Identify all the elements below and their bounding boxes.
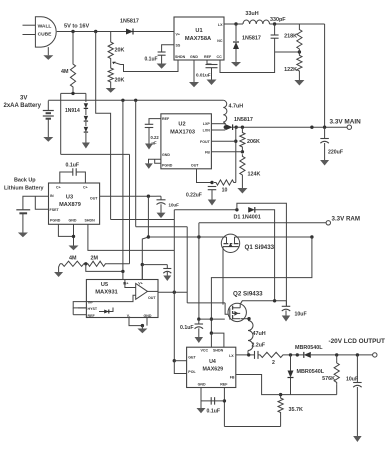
svg-text:LX: LX <box>218 23 223 27</box>
svg-text:SHDN: SHDN <box>213 349 224 353</box>
svg-text:OUT: OUT <box>148 296 156 300</box>
svg-text:GND: GND <box>69 219 77 223</box>
svg-text:10uF: 10uF <box>346 377 358 383</box>
svg-text:C+: C+ <box>83 186 88 190</box>
svg-text:3.3V RAM: 3.3V RAM <box>332 216 361 223</box>
svg-text:218K: 218K <box>284 34 297 40</box>
svg-text:uF: uF <box>152 141 158 146</box>
svg-text:MAX629: MAX629 <box>202 367 223 373</box>
svg-text:CC: CC <box>217 55 223 59</box>
svg-text:0.1uF: 0.1uF <box>180 325 194 331</box>
svg-text:MBR0540L: MBR0540L <box>297 369 325 375</box>
svg-text:POL: POL <box>188 370 196 374</box>
svg-text:Back Up: Back Up <box>14 178 36 184</box>
svg-text:10: 10 <box>222 188 228 194</box>
svg-text:3V: 3V <box>20 96 27 102</box>
svg-text:2xAA Battery: 2xAA Battery <box>4 103 42 109</box>
svg-text:576K: 576K <box>322 376 335 382</box>
svg-text:1N5817: 1N5817 <box>234 117 253 123</box>
svg-text:0.01uF: 0.01uF <box>196 73 211 78</box>
svg-text:MAX879: MAX879 <box>59 202 81 208</box>
svg-text:0.1uF: 0.1uF <box>145 57 158 63</box>
svg-text:MAX758A: MAX758A <box>185 36 211 42</box>
svg-text:0.22: 0.22 <box>151 135 160 140</box>
svg-text:REF: REF <box>204 55 212 59</box>
svg-text:LXP: LXP <box>203 122 211 126</box>
svg-text:OUT: OUT <box>191 163 199 167</box>
svg-text:IN-: IN- <box>88 300 94 304</box>
svg-text:1N5817: 1N5817 <box>120 19 139 25</box>
svg-text:REF: REF <box>88 314 96 318</box>
svg-text:0.1uF: 0.1uF <box>207 409 221 415</box>
svg-text:GND: GND <box>190 55 198 59</box>
svg-text:4M: 4M <box>69 256 77 262</box>
svg-text:LXN: LXN <box>203 129 211 133</box>
svg-text:10uF: 10uF <box>169 203 180 208</box>
svg-text:MAX931: MAX931 <box>95 290 118 296</box>
svg-text:2: 2 <box>272 360 275 366</box>
svg-text:GND: GND <box>162 153 170 157</box>
svg-text:D1 1N4001: D1 1N4001 <box>234 214 261 220</box>
svg-text:GET: GET <box>188 355 196 359</box>
svg-text:Q2 Si9433: Q2 Si9433 <box>233 291 263 298</box>
svg-text:33uH: 33uH <box>245 11 258 17</box>
svg-text:C+: C+ <box>56 186 61 190</box>
svg-text:Q1 Si9433: Q1 Si9433 <box>245 244 275 251</box>
svg-text:IN+: IN+ <box>123 282 129 286</box>
svg-text:206K: 206K <box>247 139 260 145</box>
svg-text:U1: U1 <box>195 28 202 34</box>
svg-text:FB: FB <box>205 151 210 155</box>
svg-text:MAX1703: MAX1703 <box>170 130 195 136</box>
svg-text:REF: REF <box>162 117 170 121</box>
svg-text:1N914: 1N914 <box>65 108 80 114</box>
svg-text:U2: U2 <box>178 122 185 128</box>
svg-text:0.22uF: 0.22uF <box>186 192 202 198</box>
svg-text:3.3V MAIN: 3.3V MAIN <box>330 118 362 125</box>
svg-text:PGND: PGND <box>50 219 61 223</box>
svg-text:LX: LX <box>229 354 234 358</box>
svg-text:WALL: WALL <box>38 24 52 30</box>
svg-text:GND: GND <box>144 314 152 318</box>
svg-text:GND: GND <box>198 383 206 387</box>
svg-text:FB: FB <box>230 375 235 379</box>
svg-text:124K: 124K <box>248 172 261 178</box>
svg-text:U4: U4 <box>209 359 216 365</box>
svg-text:-20V LCD OUTPUT: -20V LCD OUTPUT <box>329 338 386 345</box>
svg-text:IN: IN <box>50 194 54 198</box>
svg-text:U3: U3 <box>66 195 73 201</box>
svg-text:VCC: VCC <box>201 349 209 353</box>
svg-text:SHDN: SHDN <box>85 219 96 223</box>
svg-text:2.2uF: 2.2uF <box>252 342 266 348</box>
svg-text:5V to 16V: 5V to 16V <box>64 24 89 30</box>
svg-text:0.1uF: 0.1uF <box>66 163 80 169</box>
svg-text:SHDN: SHDN <box>175 55 186 59</box>
svg-text:FSET: FSET <box>50 208 60 212</box>
svg-text:OUT: OUT <box>90 197 98 201</box>
svg-text:10uF: 10uF <box>295 312 307 318</box>
svg-text:NC: NC <box>217 39 223 43</box>
svg-text:REF: REF <box>220 383 228 387</box>
svg-text:V+: V+ <box>138 282 143 286</box>
svg-text:U5: U5 <box>101 282 108 288</box>
svg-text:47uH: 47uH <box>253 331 266 337</box>
svg-text:20K: 20K <box>115 78 125 84</box>
svg-text:HYST: HYST <box>88 307 98 311</box>
svg-text:330pF: 330pF <box>270 17 286 23</box>
svg-text:PGND: PGND <box>162 163 173 167</box>
svg-text:1N5817: 1N5817 <box>242 36 261 42</box>
svg-text:MBR0540L: MBR0540L <box>295 345 323 351</box>
svg-text:Lithium Battery: Lithium Battery <box>4 185 44 191</box>
svg-text:SS: SS <box>176 44 181 48</box>
svg-text:122K: 122K <box>284 67 297 73</box>
svg-text:4M: 4M <box>61 69 69 75</box>
svg-text:2M: 2M <box>91 256 99 262</box>
svg-text:220uF: 220uF <box>328 150 343 156</box>
svg-text:20K: 20K <box>115 48 125 54</box>
svg-text:FOUT: FOUT <box>200 140 211 144</box>
svg-text:35.7K: 35.7K <box>289 407 303 413</box>
svg-text:V+: V+ <box>176 33 181 37</box>
svg-text:CUBE: CUBE <box>38 32 53 38</box>
svg-text:4.7uH: 4.7uH <box>229 104 244 110</box>
